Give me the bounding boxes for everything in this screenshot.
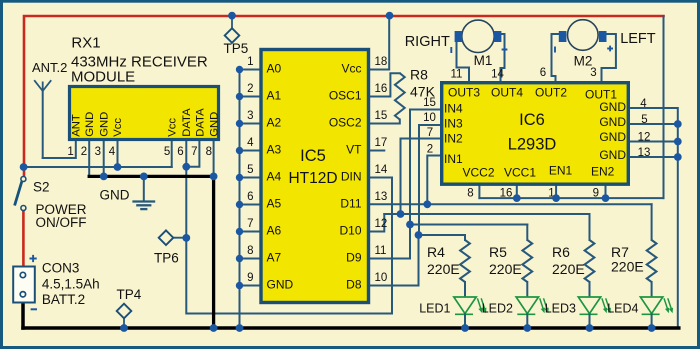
svg-text:RX1: RX1 [71, 35, 100, 52]
junction LED4 on ground bus [648, 324, 656, 332]
junction IC5 pin 4 on ground rail [236, 147, 243, 154]
wire D8 jog up to R4 line [370, 235, 418, 286]
junction D11/IN1/R7 [423, 200, 431, 208]
resistor R8 47K [395, 73, 405, 119]
svg-text:11: 11 [451, 69, 463, 81]
svg-text:12: 12 [375, 218, 388, 230]
svg-text:LED4: LED4 [607, 302, 638, 316]
wire RX pin3 stub [103, 141, 105, 176]
wire RX pin4 stub [117, 141, 119, 167]
black battery negative wire [21, 303, 25, 329]
svg-text:GND: GND [599, 130, 626, 144]
wire RX pin5 riser [171, 141, 173, 167]
wire IC6 pin9 stub [605, 186, 607, 198]
junction LED1 on ground bus [461, 324, 469, 332]
svg-text:7: 7 [191, 146, 197, 158]
resistor R6 220E [589, 214, 591, 240]
svg-text:HT12D: HT12D [288, 170, 337, 187]
svg-text:TP4: TP4 [117, 287, 142, 302]
wire IC5 left pin stub y=285.5 [240, 285, 260, 287]
wire R8 bottom to pin15 OSC2 [370, 120, 400, 124]
wire IC5 pin18 Vcc riser to rail [370, 16, 389, 70]
svg-text:IN2: IN2 [444, 132, 463, 146]
junction RX pin3 GND [100, 173, 108, 181]
svg-text:IC5: IC5 [300, 147, 326, 165]
svg-text:EN1: EN1 [549, 164, 573, 178]
svg-text:DIN: DIN [341, 170, 362, 184]
resistor R5 220E [526, 225, 528, 241]
svg-text:OSC1: OSC1 [329, 89, 362, 103]
wire RX data link pins 6-7 [186, 141, 199, 167]
wire IC5 left pin stub y=204.5 [240, 204, 260, 206]
junction IC5 pin 7 on ground rail [236, 228, 243, 235]
junction IC6 pin1 EN1 [552, 194, 560, 202]
motor M1 RIGHT [462, 20, 494, 52]
wire IC6 pin16 stub [516, 186, 518, 198]
junction TP6 on DATA line [182, 234, 190, 242]
svg-text:R4: R4 [427, 244, 445, 260]
svg-text:220E: 220E [489, 261, 522, 277]
svg-text:ON/OFF: ON/OFF [36, 215, 87, 230]
wire IC6 pin8 stub [478, 186, 480, 198]
antenna ANT.2 symbol [42, 91, 44, 158]
junction IC6 pin16 VCC1 [513, 194, 521, 202]
junction IC6 pin12 GND [674, 138, 682, 146]
junction ground symbol [140, 173, 148, 181]
wire LED1 cathode to bus [464, 314, 466, 328]
svg-text:Vcc: Vcc [167, 118, 179, 137]
svg-text:TP6: TP6 [154, 250, 179, 265]
wire IC6 IN2 drop [401, 139, 441, 215]
wire IC5 left pin stub y=123.5 [240, 123, 260, 125]
resistor R4 220E [464, 235, 466, 240]
black vertical to ground bus [212, 176, 215, 328]
svg-text:10: 10 [423, 112, 436, 124]
wire LED3 cathode to bus [589, 314, 591, 328]
svg-text:R6: R6 [552, 244, 570, 260]
svg-text:7: 7 [427, 127, 433, 139]
svg-text:8: 8 [206, 146, 212, 158]
junction RX DATA pins 6-7 [182, 163, 190, 171]
svg-text:10: 10 [375, 272, 388, 284]
junction LED3 on ground bus [586, 324, 594, 332]
svg-text:ANT: ANT [71, 114, 83, 137]
wire IC6 IN3 drop [419, 125, 440, 235]
wire DATA line down to DIN run [186, 167, 392, 314]
svg-text:16: 16 [375, 83, 388, 95]
wire red switch to battery positive [22, 211, 25, 267]
svg-text:RIGHT: RIGHT [405, 34, 450, 50]
svg-text:GND: GND [599, 148, 626, 162]
wire RX pin8 stub [213, 141, 215, 176]
wire IC5 pin17 VT stub [370, 150, 384, 152]
svg-text:13: 13 [375, 191, 388, 203]
LED4 [640, 297, 662, 314]
svg-text:R8: R8 [410, 67, 428, 83]
wire RX pin1 to antenna [43, 141, 76, 158]
svg-text:6: 6 [247, 191, 253, 203]
svg-text:3: 3 [247, 110, 253, 122]
wire D11 line to R7 and IN1 [370, 203, 651, 205]
svg-text:220E: 220E [552, 261, 585, 277]
wire IC6 GND pins 4,5,12,13 to ground [630, 108, 678, 328]
svg-text:S2: S2 [33, 180, 50, 195]
svg-text:2: 2 [247, 83, 253, 95]
svg-text:6: 6 [177, 146, 183, 158]
junction IC6 pin9 EN2 [602, 194, 610, 202]
junction IC5 pin 6 on ground rail [236, 201, 243, 208]
svg-text:IN1: IN1 [444, 152, 463, 166]
svg-text:M2: M2 [574, 54, 593, 69]
svg-text:R5: R5 [489, 244, 507, 260]
svg-text:GND: GND [84, 112, 96, 137]
battery minus sign [31, 308, 37, 310]
junction IC5 rail on ground bus [236, 324, 244, 332]
wire R5 line [410, 224, 527, 226]
black GND bus under RX module [89, 175, 213, 178]
wire IC5 left pin stub y=150.5 [240, 150, 260, 152]
junction switch S2 / Vcc line [20, 163, 28, 171]
RX1 433MHz receiver module box [70, 87, 219, 140]
svg-text:5: 5 [641, 114, 647, 126]
wire IC6 IN4 drop [410, 110, 440, 225]
svg-text:A6: A6 [267, 224, 282, 238]
wire IC6 IN1 drop [427, 156, 440, 205]
svg-text:LED3: LED3 [545, 302, 576, 316]
wire red V+ rail from switch up and across top [24, 16, 664, 177]
wire IC5 left pin stub y=177.5 [240, 177, 260, 179]
svg-text:6: 6 [540, 67, 546, 79]
svg-text:12: 12 [638, 131, 651, 143]
battery plus sign [30, 255, 37, 262]
svg-text:A3: A3 [267, 143, 282, 157]
wire RX Vcc line to switch [24, 166, 172, 168]
L293D motor driver IC6 box [442, 83, 629, 185]
svg-text:4: 4 [640, 98, 647, 110]
svg-text:8: 8 [247, 245, 253, 257]
svg-text:15: 15 [375, 110, 388, 122]
svg-text:17: 17 [375, 137, 388, 149]
svg-text:GND: GND [599, 115, 626, 129]
IC5 address ground rail [239, 70, 241, 329]
svg-text:IN4: IN4 [444, 102, 463, 116]
svg-text:16: 16 [500, 188, 513, 200]
wire motor M1 right terminal to pin14 [501, 34, 505, 81]
junction IC6 pin5 GND [674, 120, 682, 128]
ground symbol GND [143, 176, 145, 201]
wire motor M1 left terminal to pin11 [457, 42, 470, 81]
junction TP5 on V+ rail [228, 12, 236, 20]
svg-text:OUT3: OUT3 [448, 86, 480, 100]
svg-text:47K: 47K [410, 83, 436, 99]
svg-text:IN3: IN3 [444, 117, 463, 131]
svg-text:VCC2: VCC2 [462, 166, 494, 180]
resistor R7 220E [651, 204, 653, 240]
junction IC6 pin13 GND [674, 153, 682, 161]
svg-text:LEFT: LEFT [620, 31, 656, 47]
svg-text:13: 13 [638, 147, 651, 159]
svg-text:220E: 220E [427, 261, 460, 277]
wire LED4 cathode to bus [651, 314, 653, 328]
svg-text:4.5,1.5Ah: 4.5,1.5Ah [42, 276, 100, 291]
junction IC5 Vcc on V+ rail [386, 12, 394, 20]
LED2 [516, 297, 538, 314]
motor M2 LEFT [568, 20, 599, 51]
wire D9 jog up to R5 line [370, 225, 410, 259]
LED3 [578, 297, 600, 314]
wire Vcc right-side drop to IC6 supply bus [663, 16, 665, 198]
svg-text:OUT4: OUT4 [491, 86, 523, 100]
svg-text:LED2: LED2 [482, 302, 513, 316]
svg-text:ANT.2: ANT.2 [32, 60, 67, 75]
svg-text:BATT.2: BATT.2 [42, 292, 85, 307]
svg-text:4: 4 [109, 146, 116, 158]
svg-text:7: 7 [247, 218, 253, 230]
wire LED2 cathode to bus [526, 314, 528, 328]
svg-text:14: 14 [375, 164, 388, 176]
svg-text:18: 18 [375, 56, 388, 68]
svg-text:EN2: EN2 [591, 165, 615, 179]
svg-text:9: 9 [247, 272, 253, 284]
junction RX pin8 GND [210, 173, 218, 181]
test point TP4 [123, 318, 125, 328]
junction IC5 pin 2 on ground rail [236, 93, 243, 100]
svg-text:VCC1: VCC1 [504, 166, 536, 180]
junction D9/IN4/R5 [406, 221, 414, 229]
svg-text:IC6: IC6 [519, 111, 545, 129]
svg-text:M1: M1 [474, 53, 493, 68]
wire motor M2 left terminal to pin6 [552, 34, 560, 81]
svg-text:DATA: DATA [195, 108, 207, 137]
svg-text:VT: VT [346, 143, 362, 157]
wire IC5 left pin stub y=69.5 [240, 69, 260, 71]
svg-text:1: 1 [247, 56, 253, 68]
HT12D decoder IC5 box [261, 50, 369, 303]
svg-text:OUT2: OUT2 [535, 86, 567, 100]
wire R6 line [384, 213, 589, 215]
wire IC5 left pin stub y=231.5 [240, 231, 260, 233]
svg-text:3: 3 [590, 67, 596, 79]
svg-text:A5: A5 [267, 197, 282, 211]
svg-text:D8: D8 [346, 278, 362, 292]
svg-text:1: 1 [67, 146, 73, 158]
svg-text:8: 8 [467, 188, 473, 200]
junction IC5 pin 8 on ground rail [236, 255, 243, 262]
svg-text:GND: GND [209, 112, 221, 137]
wire motor M2 right terminal to pin3 [602, 34, 616, 81]
svg-text:L293D: L293D [508, 136, 557, 154]
svg-text:MODULE: MODULE [71, 68, 135, 85]
svg-text:Vcc: Vcc [341, 62, 361, 76]
svg-text:2: 2 [427, 143, 433, 155]
junction D10/IN2/R6 [397, 210, 405, 218]
svg-text:DATA: DATA [181, 108, 193, 137]
junction IC5 pin 5 on ground rail [236, 174, 243, 181]
svg-text:A7: A7 [267, 251, 282, 265]
svg-text:GND: GND [100, 188, 130, 203]
svg-text:11: 11 [375, 245, 387, 257]
switch S2 [21, 177, 26, 182]
svg-text:4: 4 [247, 137, 254, 149]
test point TP6 [173, 237, 186, 239]
svg-text:TP5: TP5 [224, 41, 249, 56]
svg-text:D9: D9 [346, 251, 362, 265]
wire IC5 left pin stub y=96.5 [240, 96, 260, 98]
wire D10 jog up to R6 line [370, 214, 384, 232]
svg-text:R7: R7 [611, 244, 629, 260]
svg-text:CON3: CON3 [42, 261, 80, 276]
wire IC5 left pin stub y=258.5 [240, 258, 260, 260]
svg-text:A0: A0 [267, 62, 282, 76]
svg-text:A1: A1 [267, 89, 282, 103]
junction black return on ground bus [210, 324, 218, 332]
svg-text:3: 3 [95, 146, 101, 158]
battery connector CON3 [13, 267, 35, 303]
wire R4 line [419, 234, 466, 236]
svg-text:2: 2 [81, 146, 87, 158]
wire IC6 VCC bus [479, 197, 663, 199]
svg-text:A2: A2 [267, 116, 282, 130]
junction D8/IN3/R4 [415, 231, 423, 239]
wire IC6 pin1 stub [555, 186, 557, 198]
svg-text:OSC2: OSC2 [329, 116, 362, 130]
svg-text:GND: GND [267, 278, 294, 292]
svg-text:D11: D11 [340, 197, 361, 211]
svg-text:GND: GND [99, 112, 111, 137]
junction IC5 pin 9 on ground rail [236, 282, 243, 289]
LED1 [454, 297, 476, 314]
junction IC5 pin 1 on ground rail [236, 66, 243, 73]
svg-text:5: 5 [247, 164, 253, 176]
svg-text:9: 9 [593, 188, 599, 200]
black ground bus bottom [23, 326, 679, 330]
junction IC5 pin 3 on ground rail [236, 120, 243, 127]
svg-text:220E: 220E [611, 259, 644, 275]
svg-text:Vcc: Vcc [112, 118, 124, 137]
svg-text:5: 5 [164, 146, 170, 158]
svg-text:GND: GND [599, 100, 626, 114]
junction TP4 on ground bus [120, 324, 128, 332]
svg-text:D10: D10 [339, 224, 361, 238]
junction LED2 on ground bus [523, 324, 531, 332]
svg-text:LED1: LED1 [419, 302, 450, 316]
wire IC5 pin16 OSC1 stub [370, 73, 400, 96]
wire RX pin2 stub [88, 141, 90, 176]
svg-text:14: 14 [491, 69, 504, 81]
svg-text:A4: A4 [267, 170, 282, 184]
junction RX pin4 Vcc [114, 163, 122, 171]
test point TP5 [231, 16, 233, 29]
